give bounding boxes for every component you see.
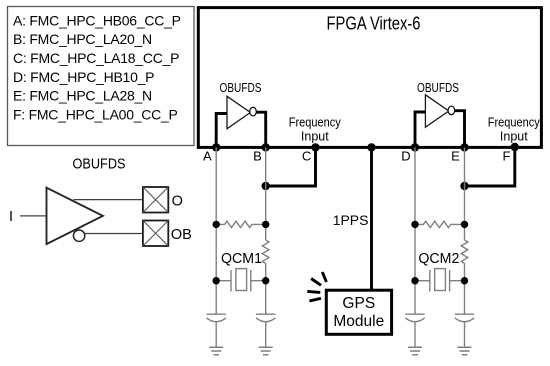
crystal Y1 (216, 269, 266, 292)
node E dot (460, 143, 468, 151)
svg-text:OBUFDS: OBUFDS (73, 157, 126, 173)
GPS module box (326, 290, 391, 334)
dot Y2 right (461, 277, 468, 284)
dot Y2 left (411, 277, 418, 284)
svg-text:O: O (172, 193, 183, 209)
svg-text:F: FMC_HPC_LA00_CC_P: F: FMC_HPC_LA00_CC_P (13, 106, 178, 122)
burst ray 1 (322, 272, 326, 282)
legend OB pad (143, 221, 168, 247)
svg-text:OBUFDS: OBUFDS (417, 80, 459, 95)
dot R1 right (262, 221, 269, 228)
legend O pad (143, 187, 168, 213)
signal list box (8, 7, 195, 146)
svg-text:F: F (503, 149, 511, 164)
wire U1 input (216, 114, 227, 148)
capacitor C4 (455, 314, 474, 322)
resistor R2 vertical (262, 240, 269, 263)
svg-text:Input: Input (301, 129, 329, 143)
svg-text:QCM1: QCM1 (221, 251, 262, 267)
node B dot (262, 143, 270, 151)
ground G4 (458, 347, 472, 354)
wire U2 input (415, 112, 425, 147)
svg-text:OBUFDS: OBUFDS (220, 80, 262, 95)
svg-text:OB: OB (171, 227, 192, 243)
junction dot CB (262, 182, 270, 190)
svg-text:E: FMC_HPC_LA28_N: E: FMC_HPC_LA28_N (13, 88, 152, 104)
svg-text:A: FMC_HPC_HB06_CC_P: A: FMC_HPC_HB06_CC_P (13, 12, 181, 28)
resistor R3 horizontal (415, 221, 465, 227)
svg-text:Frequency: Frequency (289, 115, 342, 129)
node 1PPS dot (367, 143, 375, 151)
legend OB wire (85, 233, 143, 235)
capacitor C3 (405, 314, 424, 322)
dot R3 right (461, 221, 468, 228)
node D dot (411, 143, 419, 151)
wire line B vertical (265, 147, 267, 347)
node F dot (511, 143, 519, 151)
legend O wire (74, 199, 143, 201)
FPGA box (198, 8, 541, 148)
capacitor C2 (256, 314, 275, 322)
burst ray 4 (309, 298, 321, 301)
node A dot (212, 143, 220, 151)
svg-text:Input: Input (500, 129, 528, 143)
svg-text:1PPS: 1PPS (333, 212, 369, 228)
wire line D vertical (414, 147, 416, 347)
svg-text:Frequency: Frequency (488, 115, 541, 129)
burst ray 3 (307, 291, 320, 292)
legend input wire (20, 215, 47, 217)
svg-text:I: I (9, 209, 13, 225)
op-amp U1 bubble (250, 107, 257, 116)
svg-text:B: B (253, 149, 262, 164)
svg-text:E: E (451, 149, 460, 164)
capacitor C1 (207, 314, 226, 322)
wire C to B (266, 147, 316, 186)
crystal Y2 (415, 269, 465, 292)
svg-text:D: D (401, 149, 410, 164)
svg-text:Module: Module (333, 313, 384, 330)
dot R1 left (213, 221, 220, 228)
wire F to E (465, 147, 515, 186)
node C dot (311, 143, 319, 151)
svg-text:GPS: GPS (342, 295, 375, 312)
wire U1 output (256, 112, 266, 147)
op-amp U1 triangle (227, 96, 250, 128)
wire 1PPS (370, 147, 373, 290)
wire line E vertical (464, 147, 466, 347)
burst ray 2 (311, 279, 321, 286)
svg-text:C: C (302, 149, 311, 164)
dot Y1 left (213, 277, 220, 284)
legend buffer triangle (47, 188, 103, 244)
ground G3 (408, 347, 422, 354)
resistor R1 horizontal (216, 221, 266, 227)
svg-text:C: FMC_HPC_LA18_CC_P: C: FMC_HPC_LA18_CC_P (13, 50, 179, 66)
dot R3 left (411, 221, 418, 228)
wire line A vertical (215, 147, 217, 347)
ground G1 (209, 347, 223, 354)
wire U2 output (455, 111, 465, 147)
svg-text:B: FMC_HPC_LA20_N: B: FMC_HPC_LA20_N (13, 31, 152, 47)
svg-text:FPGA Virtex-6: FPGA Virtex-6 (327, 14, 421, 34)
legend bubble (73, 230, 84, 241)
op-amp U2 bubble (448, 106, 455, 115)
dot Y1 right (262, 277, 269, 284)
svg-text:D: FMC_HPC_HB10_P: D: FMC_HPC_HB10_P (13, 69, 154, 85)
junction dot FE (460, 182, 468, 190)
ground G2 (259, 347, 273, 354)
resistor R4 vertical (461, 240, 468, 263)
svg-text:QCM2: QCM2 (418, 251, 459, 267)
op-amp U2 triangle (425, 95, 448, 127)
svg-text:A: A (203, 149, 212, 164)
